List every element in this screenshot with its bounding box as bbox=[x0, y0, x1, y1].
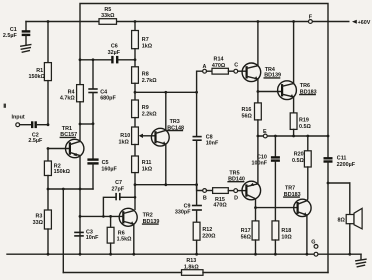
svg-text:R3: R3 bbox=[35, 213, 42, 219]
svg-text:10nF: 10nF bbox=[206, 141, 219, 147]
svg-text:R16: R16 bbox=[242, 107, 252, 113]
svg-text:100nF: 100nF bbox=[252, 160, 268, 166]
resistor R4 bbox=[79, 60, 81, 85]
transistor TR6 bbox=[278, 81, 297, 100]
node B bbox=[197, 185, 203, 191]
svg-text:G: G bbox=[311, 240, 315, 246]
resistor R9 bbox=[134, 92, 136, 100]
svg-text:E: E bbox=[263, 129, 267, 135]
svg-text:C6: C6 bbox=[111, 44, 118, 50]
svg-text:1.8kΩ: 1.8kΩ bbox=[184, 265, 199, 271]
wire input bbox=[20, 124, 31, 126]
svg-text:10nF: 10nF bbox=[86, 235, 99, 241]
resistor R16 bbox=[255, 103, 262, 120]
svg-text:1kΩ: 1kΩ bbox=[142, 43, 153, 49]
svg-text:R11: R11 bbox=[142, 160, 152, 166]
svg-text:R4: R4 bbox=[68, 89, 75, 95]
svg-text:220Ω: 220Ω bbox=[202, 233, 216, 239]
transistor TR2 bbox=[119, 208, 137, 226]
capacitor C6 bbox=[111, 56, 113, 64]
wire TR5 collector / TR7 base row bbox=[255, 199, 257, 208]
capacitor C1 bbox=[25, 22, 27, 32]
transistor TR4 bbox=[242, 63, 261, 82]
svg-text:56Ω: 56Ω bbox=[241, 114, 252, 120]
wire TR4 collector to rail bbox=[257, 22, 259, 66]
wire TR6 base bbox=[258, 91, 282, 93]
svg-text:C4: C4 bbox=[100, 89, 107, 95]
node +60V terminal bbox=[352, 20, 357, 24]
svg-text:330pF: 330pF bbox=[175, 210, 191, 216]
svg-text:27pF: 27pF bbox=[112, 187, 125, 193]
svg-text:A: A bbox=[202, 64, 206, 70]
capacitor C5 bbox=[92, 124, 94, 160]
svg-text:+60V: +60V bbox=[358, 20, 371, 26]
svg-text:B: B bbox=[203, 195, 207, 201]
wire TR3 collector bbox=[165, 92, 167, 130]
wire feedback drop to rail B bbox=[62, 189, 64, 273]
resistor R6 bbox=[110, 216, 112, 227]
capacitor C11 bbox=[327, 22, 329, 159]
resistor R20 bbox=[307, 136, 309, 151]
svg-text:33Ω: 33Ω bbox=[33, 220, 44, 226]
wire TR1 base bbox=[48, 148, 70, 150]
svg-text:C9: C9 bbox=[184, 203, 191, 209]
node C bbox=[234, 69, 238, 73]
svg-text:C5: C5 bbox=[102, 160, 109, 166]
svg-text:2200µF: 2200µF bbox=[337, 162, 356, 168]
svg-text:10Ω: 10Ω bbox=[281, 234, 292, 240]
wire rail B feedback bottom bbox=[63, 272, 181, 274]
resistor R11 bbox=[132, 156, 139, 173]
wire TR4 base bbox=[238, 70, 247, 72]
resistor R15 bbox=[207, 190, 213, 192]
svg-text:Input: Input bbox=[12, 114, 25, 120]
svg-text:0.5Ω: 0.5Ω bbox=[299, 124, 311, 130]
svg-text:R20: R20 bbox=[294, 151, 304, 157]
resistor R8 bbox=[134, 60, 136, 67]
ground (under C1) bbox=[21, 45, 31, 47]
wire A row bbox=[135, 91, 197, 93]
svg-text:R18: R18 bbox=[281, 228, 291, 234]
svg-text:470Ω: 470Ω bbox=[212, 63, 226, 69]
svg-text:0.5Ω: 0.5Ω bbox=[292, 158, 304, 164]
wire TR5 emitter up bbox=[257, 136, 259, 184]
svg-text:C: C bbox=[234, 62, 238, 68]
transistor TR1 bbox=[66, 139, 84, 157]
svg-text:8Ω: 8Ω bbox=[337, 218, 345, 224]
wire TR3 emitter bbox=[165, 144, 167, 185]
transistor TR3 bbox=[151, 128, 169, 146]
wire TR2 base row bbox=[80, 215, 123, 217]
node G bbox=[314, 245, 318, 249]
svg-text:150kΩ: 150kΩ bbox=[54, 169, 71, 175]
svg-text:32µF: 32µF bbox=[108, 50, 121, 56]
svg-text:R19: R19 bbox=[299, 117, 309, 123]
resistor R12 bbox=[193, 222, 200, 240]
svg-text:2.5µF: 2.5µF bbox=[28, 138, 43, 144]
svg-text:2.5µF: 2.5µF bbox=[3, 33, 18, 39]
svg-text:2.2kΩ: 2.2kΩ bbox=[142, 111, 157, 117]
capacitor C4 bbox=[92, 60, 94, 89]
svg-text:C8: C8 bbox=[206, 135, 213, 141]
svg-text:160µF: 160µF bbox=[101, 166, 117, 172]
svg-text:R6: R6 bbox=[118, 230, 125, 236]
svg-text:C7: C7 bbox=[115, 180, 122, 186]
wire node A branch bbox=[197, 71, 203, 92]
resistor R19 bbox=[293, 97, 295, 113]
svg-text:680pF: 680pF bbox=[100, 96, 116, 102]
svg-text:4.7kΩ: 4.7kΩ bbox=[60, 96, 75, 102]
svg-text:R10: R10 bbox=[120, 133, 130, 139]
svg-text:TR7: TR7 bbox=[285, 186, 295, 192]
ground (right end) bbox=[360, 254, 362, 259]
wire bootstrap top rail L1 bbox=[80, 4, 328, 60]
svg-text:33kΩ: 33kΩ bbox=[101, 13, 115, 19]
svg-text:C11: C11 bbox=[337, 155, 347, 161]
speaker 8 ohm bbox=[346, 215, 354, 224]
wire TR1 collector link bbox=[80, 123, 93, 125]
node E bbox=[263, 134, 267, 138]
resistor R7 bbox=[134, 22, 136, 31]
svg-text:R5: R5 bbox=[104, 7, 111, 13]
node A bbox=[203, 69, 207, 73]
resistor R13 bbox=[182, 270, 204, 276]
resistor R3 bbox=[47, 189, 49, 210]
wire feedback line bbox=[48, 188, 93, 190]
resistor R17 bbox=[255, 208, 257, 221]
svg-text:1kΩ: 1kΩ bbox=[142, 166, 153, 172]
svg-text:D: D bbox=[234, 196, 238, 202]
node F bbox=[309, 20, 313, 24]
resistor R14 bbox=[207, 70, 213, 72]
resistor R2 bbox=[47, 149, 49, 162]
svg-text:R14: R14 bbox=[214, 56, 224, 62]
resistor R5 bbox=[99, 19, 117, 25]
wire TR6 collector to rail bbox=[293, 22, 295, 84]
svg-text:1kΩ: 1kΩ bbox=[118, 139, 129, 145]
svg-text:R12: R12 bbox=[202, 227, 212, 233]
svg-text:56Ω: 56Ω bbox=[241, 234, 252, 240]
capacitor C7 bbox=[103, 197, 115, 216]
svg-text:2.7kΩ: 2.7kΩ bbox=[142, 78, 157, 84]
svg-text:TR3: TR3 bbox=[170, 119, 180, 125]
wire TR2 emitter bbox=[133, 224, 135, 254]
svg-text:470Ω: 470Ω bbox=[213, 203, 227, 209]
capacitor C9 bbox=[192, 205, 202, 207]
wire output node row bbox=[258, 135, 328, 137]
svg-text:TR6: TR6 bbox=[300, 83, 310, 89]
svg-text:R9: R9 bbox=[142, 105, 149, 111]
wire TR2 collector bbox=[134, 185, 136, 210]
svg-text:R17: R17 bbox=[241, 228, 251, 234]
wire node B row left bbox=[135, 184, 197, 186]
svg-text:1.5kΩ: 1.5kΩ bbox=[117, 237, 132, 243]
resistor R18 bbox=[272, 221, 279, 240]
capacitor C10 bbox=[274, 136, 276, 157]
transistor TR7 bbox=[294, 199, 311, 216]
wire ground rail A bbox=[7, 253, 315, 255]
wire C6 row bbox=[80, 59, 111, 61]
resistor R1 bbox=[47, 22, 49, 63]
svg-text:R1: R1 bbox=[36, 68, 43, 74]
node D bbox=[234, 189, 238, 193]
potentiometer R10 bbox=[132, 127, 139, 145]
capacitor C8 bbox=[196, 92, 198, 136]
wire +60V supply rail L2 bbox=[26, 21, 99, 23]
svg-text:TR2: TR2 bbox=[143, 213, 153, 219]
svg-text:R13: R13 bbox=[186, 258, 196, 264]
wire speaker feed bbox=[328, 182, 350, 184]
svg-text:150kΩ: 150kΩ bbox=[28, 74, 45, 80]
capacitor C2 bbox=[31, 121, 33, 128]
capacitor C3 bbox=[74, 231, 84, 233]
svg-text:R7: R7 bbox=[142, 37, 149, 43]
wire TR1 emitter column bbox=[79, 156, 81, 236]
wire TR4 emitter / R16 bbox=[257, 79, 259, 103]
wire TR7 emitter bbox=[306, 215, 308, 254]
svg-text:R8: R8 bbox=[142, 72, 149, 78]
transistor TR5 bbox=[238, 190, 247, 192]
